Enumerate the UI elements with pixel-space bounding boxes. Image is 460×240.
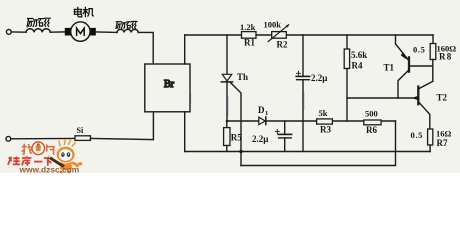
wire Br bottom-right to bus (184, 112, 186, 152)
thyristor Th anode wire (226, 35, 228, 74)
svg-text:R4: R4 (352, 61, 363, 71)
transistor T1 (396, 44, 410, 72)
orange logo text (22, 144, 55, 155)
svg-text:Si: Si (77, 126, 84, 135)
svg-text:100k: 100k (264, 20, 282, 30)
svg-text:R7: R7 (437, 138, 448, 148)
svg-text:R3: R3 (320, 125, 331, 135)
svg-text:D: D (258, 105, 265, 115)
resistor R3 (317, 119, 333, 124)
pen (48, 156, 65, 168)
scan tint marks (190, 92, 303, 143)
svg-text:2.2μ: 2.2μ (311, 73, 327, 83)
watermark (8, 139, 83, 174)
terminal top-left (6, 30, 11, 35)
svg-text:Th: Th (237, 72, 248, 82)
svg-text:1: 1 (265, 110, 268, 117)
wire (11, 31, 26, 33)
svg-text:R5: R5 (231, 133, 242, 143)
diode D1 (259, 117, 265, 124)
svg-text:5k: 5k (319, 108, 328, 118)
D1 R3 R6 line (227, 120, 259, 122)
node dot Th cathode (226, 120, 229, 123)
bridge Br box (145, 64, 190, 112)
resistor R1 (242, 32, 257, 39)
label 励磁 left (27, 18, 50, 27)
label 励磁 right (116, 21, 137, 28)
inductor L1 field coil (26, 29, 50, 32)
wire Br top-right to rail (184, 35, 186, 64)
fuse Si (75, 136, 91, 141)
svg-text:R1: R1 (244, 38, 255, 48)
wire bottom loop (gate return) (241, 121, 396, 166)
svg-text:R8: R8 (439, 52, 452, 62)
resistor R7 (428, 129, 433, 145)
svg-text:T2: T2 (437, 93, 448, 103)
capacitor C2 2.2u (lower) (284, 121, 286, 134)
svg-text:2.2μ: 2.2μ (252, 134, 268, 144)
top rail (185, 34, 242, 36)
mascot (57, 139, 83, 173)
resistor R8 (432, 35, 434, 44)
thyristor Th (222, 74, 232, 81)
svg-text:5.6k: 5.6k (351, 50, 367, 60)
wire T1 emitter to rail (395, 35, 397, 44)
capacitor C1 2.2u (upper) (302, 35, 304, 76)
wire to Br bottom-left (91, 112, 154, 140)
svg-text:500: 500 (365, 109, 378, 119)
bottom bus (negative rail) (185, 151, 430, 153)
wire T1 collector to T2 base line (398, 71, 408, 99)
wire T1 base to R8 node (410, 65, 433, 67)
node dot gate-bus (239, 150, 242, 153)
svg-text:Br: Br (164, 79, 175, 90)
svg-text:1.2k: 1.2k (240, 22, 256, 32)
svg-text:0.5: 0.5 (411, 130, 423, 140)
T2 base line (347, 97, 417, 99)
resistor R4 (346, 35, 348, 49)
emblem circle (32, 142, 45, 155)
wire (96, 31, 117, 34)
thyristor gate (230, 82, 241, 165)
resistor R6 (364, 120, 381, 125)
svg-text:www.dzsc.com: www.dzsc.com (19, 165, 80, 173)
wire (11, 137, 75, 139)
svg-text:0.5: 0.5 (413, 44, 425, 54)
resistor R2 rheostat (272, 32, 287, 39)
svg-text:16Ω: 16Ω (436, 128, 452, 138)
red text (8, 156, 53, 165)
wire (50, 31, 65, 33)
svg-text:R2: R2 (277, 40, 288, 50)
wire T2 emitter to R7 (419, 103, 429, 129)
inductor L2 field coil (117, 29, 138, 32)
label 电机 (74, 7, 93, 17)
motor M (65, 28, 71, 36)
svg-text:T1: T1 (384, 63, 395, 73)
wire to bridge (138, 32, 153, 64)
transistor T2 (413, 81, 433, 104)
svg-text:R6: R6 (366, 125, 377, 135)
resistor R5 (226, 121, 228, 128)
terminal bottom-left (6, 136, 11, 141)
